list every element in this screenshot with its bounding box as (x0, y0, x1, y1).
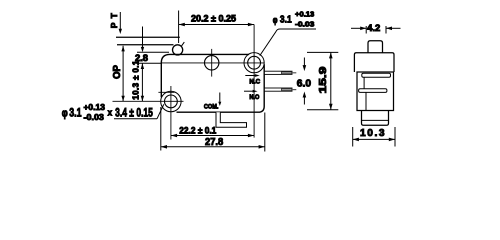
label phi 3.1 +0.13/-0.03 x 3.4 ± 0.15 (left) (157, 104, 164, 119)
side plunger (368, 41, 383, 53)
lever arm bottom line (117, 44, 174, 46)
svg-text:6.0: 6.0 (297, 78, 312, 89)
svg-text:+0.13: +0.13 (84, 102, 106, 112)
dimension 6.0 (303, 58, 307, 105)
plunger button (173, 45, 183, 55)
svg-text:φ: φ (273, 15, 278, 25)
switch body outline (161, 54, 264, 112)
dimension 2.8 (137, 27, 170, 64)
svg-text:10.3 ± 0.1: 10.3 ± 0.1 (132, 60, 141, 100)
N.C terminal (264, 71, 296, 74)
svg-text:3.1: 3.1 (280, 14, 292, 25)
svg-text:+0.13: +0.13 (295, 10, 314, 19)
bottom-left hole crosshair vertical / 22.2 extension (170, 86, 172, 140)
top-right mounting hole (248, 56, 261, 69)
svg-text:27.8: 27.8 (205, 137, 224, 148)
bottom-left mounting hole (165, 95, 178, 108)
side terminal slot 1 (362, 73, 391, 77)
dimension 15.9 (307, 52, 338, 109)
side mid section (357, 72, 394, 111)
bottom-left hole boss (161, 91, 181, 111)
N.O terminal (264, 88, 296, 91)
right hole crosshair vertical / 20.2 + 22.2 extension (253, 25, 255, 138)
svg-text:-0.03: -0.03 (295, 19, 314, 28)
svg-text:x: x (108, 107, 113, 117)
COM pointer arrow (218, 93, 221, 107)
svg-text:10.3: 10.3 (360, 128, 385, 139)
top-center hole (205, 56, 219, 70)
svg-text:OP: OP (112, 65, 123, 79)
case step line bottom-left (158, 91, 174, 93)
bottom-left hole crosshair horizontal (113, 100, 184, 102)
svg-text:φ: φ (62, 108, 68, 120)
top-right hole boss (244, 53, 264, 73)
N.C pointer arrow (245, 74, 259, 77)
side bottom tab (362, 111, 389, 126)
COM bent terminal (216, 112, 247, 127)
svg-text:20.2 ± 0.25: 20.2 ± 0.25 (191, 13, 236, 23)
lever tip tick (181, 42, 184, 46)
label phi 3.1 +0.13/-0.03 (top right) (260, 29, 316, 56)
dimension 4.2 (351, 26, 401, 34)
svg-text:3.1: 3.1 (69, 105, 81, 119)
dimension 10.3 (side view) (353, 127, 395, 147)
side bottom tab lip (362, 119, 389, 121)
svg-text:4.2: 4.2 (367, 23, 380, 33)
dimension 20.2 ± 0.25 (179, 11, 255, 44)
PT dimension arrow (119, 12, 122, 34)
dimension 22.2 ± 0.1 (171, 134, 254, 138)
side terminal slot 2 (359, 89, 387, 93)
side top cap (354, 53, 394, 72)
dimension OP (121, 46, 124, 102)
side slot connector (363, 77, 365, 89)
svg-text:N.O: N.O (249, 94, 259, 101)
svg-text:22.2 ± 0.1: 22.2 ± 0.1 (179, 126, 217, 137)
N.O pointer arrow (244, 90, 258, 93)
side inner vertical line (365, 92, 367, 110)
svg-text:15.9: 15.9 (317, 66, 329, 93)
svg-text:COM.: COM. (204, 104, 219, 111)
svg-text:-0.03: -0.03 (84, 112, 105, 122)
dimension 10.3 ± 0.1 (141, 63, 144, 101)
case seam / holes center line (161, 62, 264, 64)
svg-text:N.C: N.C (249, 79, 260, 86)
svg-text:3.4 ± 0.15: 3.4 ± 0.15 (115, 106, 153, 120)
lever arm top line (116, 36, 180, 38)
dimension 27.8 (161, 107, 265, 152)
